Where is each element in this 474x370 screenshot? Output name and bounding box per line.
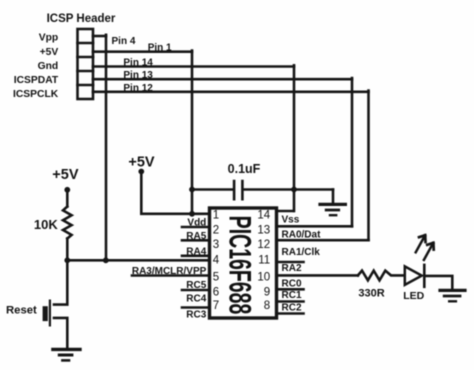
svg-text:10K: 10K <box>34 217 58 232</box>
LED arrow 2 <box>424 243 433 260</box>
svg-text:5: 5 <box>213 272 219 284</box>
ground reset switch <box>53 348 80 351</box>
wire Pin 1 vertical drop to Vdd <box>191 51 194 214</box>
wire decoupling cap right segment <box>243 188 333 191</box>
svg-text:2: 2 <box>213 224 219 236</box>
svg-text:11: 11 <box>258 255 270 267</box>
svg-text:1: 1 <box>213 210 219 222</box>
wire Pin 13 vertical drop to RA0 <box>351 78 354 226</box>
switch SW1 button cap <box>43 306 48 321</box>
wire +5V header pin to Pin 1 net <box>93 50 192 53</box>
wire MCLR net horizontal <box>67 259 209 262</box>
wire MCLR node down to reset switch <box>54 260 67 304</box>
svg-text:330R: 330R <box>358 288 384 300</box>
svg-text:8: 8 <box>264 300 270 312</box>
node junction cap right <box>291 187 297 193</box>
svg-text:3: 3 <box>213 239 219 251</box>
svg-text:RC4: RC4 <box>186 294 206 305</box>
ground top right stem <box>332 190 335 205</box>
svg-text:Gnd: Gnd <box>38 61 59 72</box>
svg-text:RA2: RA2 <box>282 263 302 274</box>
resistor R1 10K <box>63 207 72 239</box>
svg-text:Vpp: Vpp <box>39 33 58 44</box>
ground top right <box>320 203 345 206</box>
wire +5V mid drop to Vdd <box>141 173 209 214</box>
switch SW1 actuator plate <box>49 301 51 326</box>
LED arrow 1 <box>416 236 425 253</box>
ICSP header connector J1 <box>78 29 94 99</box>
svg-text:Reset: Reset <box>6 305 37 317</box>
node +5V left supply dot <box>64 187 70 193</box>
svg-text:13: 13 <box>257 224 270 236</box>
wire ICSPCLK header pin to Pin 12 net <box>93 91 369 94</box>
pin lead RC4 <box>182 306 210 309</box>
svg-text:ICSPDAT: ICSPDAT <box>14 75 59 86</box>
pin lead RA2 <box>277 261 304 264</box>
pin lead RC1 <box>277 288 304 291</box>
svg-text:ICSP Header: ICSP Header <box>47 13 116 25</box>
svg-text:Pin 1: Pin 1 <box>148 42 172 53</box>
node junction Pin1/Vdd <box>189 211 195 217</box>
svg-text:10: 10 <box>257 272 270 284</box>
svg-text:12: 12 <box>257 239 270 251</box>
svg-text:RA1/Clk: RA1/Clk <box>282 247 321 258</box>
wire LED cathode to ground <box>424 276 452 290</box>
svg-text:RA0/Dat: RA0/Dat <box>282 229 322 240</box>
node +5V mid supply dot <box>138 169 144 175</box>
svg-text:+5V: +5V <box>52 167 79 183</box>
svg-text:7: 7 <box>213 300 219 312</box>
svg-text:RA4: RA4 <box>186 246 206 257</box>
node junction MCLR left <box>64 257 70 263</box>
wire Pin 12 vertical drop to RA1 <box>367 91 370 241</box>
svg-text:RC3: RC3 <box>186 309 206 320</box>
wire Gnd header pin to Pin 14 net <box>93 65 294 68</box>
LED D1 triangle <box>405 266 422 285</box>
wire Vpp header pin to Pin 4 net <box>93 35 106 38</box>
svg-text:RC2: RC2 <box>282 302 302 313</box>
wire Vpp vertical drop to MCLR <box>105 35 108 260</box>
pin lead Vss <box>277 210 294 213</box>
wire decoupling cap left segment <box>192 188 233 191</box>
svg-text:LED: LED <box>403 290 424 302</box>
pin lead RC5 <box>182 289 210 292</box>
wire ICSPDAT header pin to Pin 13 net <box>93 78 352 81</box>
svg-text:ICSPCLK: ICSPCLK <box>13 89 59 100</box>
ground LED <box>440 289 465 292</box>
pin lead Vdd <box>182 226 210 229</box>
svg-text:+5V: +5V <box>40 47 59 58</box>
pin lead RA4 <box>182 255 210 258</box>
pin lead RA5 <box>182 239 210 242</box>
wire +5V left drop to resistor <box>66 191 69 207</box>
svg-text:6: 6 <box>213 287 219 299</box>
capacitor C1 0.1uF plates <box>234 181 242 199</box>
LED D1 cathode bar <box>423 265 426 287</box>
svg-text:Pin 14: Pin 14 <box>123 58 153 69</box>
pin lead bottom right <box>277 312 304 315</box>
svg-text:Pin 13: Pin 13 <box>123 70 153 81</box>
svg-text:9: 9 <box>264 287 270 299</box>
pin lead RA0/Dat <box>277 225 352 228</box>
svg-text:+5V: +5V <box>128 155 155 171</box>
svg-text:0.1uF: 0.1uF <box>228 162 261 176</box>
svg-text:RC1: RC1 <box>282 290 302 301</box>
svg-text:4: 4 <box>213 255 220 267</box>
svg-text:Pin 12: Pin 12 <box>123 83 153 94</box>
pin lead RA3/MCLR/VPP <box>132 274 210 277</box>
pin lead RC0 wire to resistor <box>277 274 358 277</box>
svg-text:RA3/MCLR/VPP: RA3/MCLR/VPP <box>132 266 207 277</box>
svg-text:RC5: RC5 <box>186 280 206 291</box>
svg-text:Vdd: Vdd <box>187 217 206 228</box>
switch SW1 lower contact stub <box>54 318 67 349</box>
pin lead RC2 <box>277 300 304 303</box>
svg-text:RC0: RC0 <box>282 278 302 289</box>
svg-text:PIC16F688: PIC16F688 <box>222 216 258 315</box>
svg-text:14: 14 <box>257 210 270 222</box>
resistor R2 330R <box>358 271 404 281</box>
wire resistor to MCLR node <box>66 239 69 261</box>
node junction cap left <box>189 187 195 193</box>
node junction Vpp line on MCLR net <box>103 257 109 263</box>
wire Pin 14 vertical drop to Vss <box>293 65 296 211</box>
IC U1 PIC16F688 body <box>210 208 277 318</box>
svg-text:RA5: RA5 <box>186 231 206 242</box>
svg-text:Vss: Vss <box>282 214 300 225</box>
pin lead RA1/Clk <box>277 239 369 242</box>
svg-text:Pin 4: Pin 4 <box>112 36 136 47</box>
